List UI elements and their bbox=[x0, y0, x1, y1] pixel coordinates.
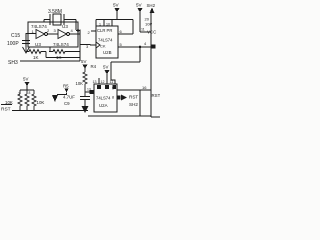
svg-text:8: 8 bbox=[29, 91, 31, 95]
svg-text:5: 5 bbox=[120, 42, 123, 47]
svg-text:4: 4 bbox=[71, 28, 74, 33]
capacitor C15 bbox=[22, 33, 30, 47]
svg-text:U3: U3 bbox=[35, 42, 41, 47]
svg-text:VCC: VCC bbox=[147, 30, 156, 35]
svg-text:10P: 10P bbox=[145, 22, 152, 27]
resistor R4 bbox=[83, 65, 87, 97]
svg-text:U3: U3 bbox=[62, 24, 68, 29]
wire between gates bbox=[48, 33, 59, 35]
svg-text:11: 11 bbox=[141, 28, 145, 32]
inverter U3a bbox=[36, 30, 45, 39]
svg-text:CK: CK bbox=[100, 44, 106, 49]
wire R5 to left bbox=[57, 93, 67, 95]
svg-text:C9: C9 bbox=[64, 101, 70, 106]
resistor R 10K c bbox=[32, 90, 36, 110]
clock chevron bbox=[96, 42, 100, 48]
svg-text:3: 3 bbox=[54, 28, 57, 33]
svg-text:SH2: SH2 bbox=[129, 102, 138, 107]
svg-text:C15: C15 bbox=[11, 33, 20, 39]
wire Q branch down bbox=[111, 47, 140, 66]
svg-text:8: 8 bbox=[112, 96, 114, 100]
svg-text:RST: RST bbox=[1, 107, 11, 113]
flip-flop U2B box bbox=[96, 26, 118, 58]
svg-text:5V: 5V bbox=[23, 77, 28, 82]
svg-text:5V: 5V bbox=[103, 65, 108, 70]
svg-text:4.7UF: 4.7UF bbox=[63, 95, 75, 100]
big IC box left edge bbox=[151, 10, 160, 117]
svg-text:4: 4 bbox=[144, 41, 147, 46]
svg-text:13: 13 bbox=[93, 80, 97, 84]
wire Q1 to CK2 bbox=[111, 66, 115, 84]
wire node A to U3 input bbox=[26, 33, 36, 35]
op-amp U3 box bbox=[28, 22, 78, 47]
svg-text:2: 2 bbox=[18, 92, 20, 96]
svg-text:SH3: SH3 bbox=[8, 60, 18, 66]
svg-text:74LS74: 74LS74 bbox=[96, 96, 111, 101]
svg-text:2: 2 bbox=[88, 30, 91, 35]
capacitor C9 bbox=[80, 97, 90, 107]
node RST SH2 arrow bbox=[121, 95, 127, 101]
svg-text:U2B: U2B bbox=[103, 50, 112, 55]
wire pullup rail bbox=[20, 89, 34, 91]
wire gate output bbox=[70, 33, 81, 35]
svg-text:100P: 100P bbox=[7, 41, 19, 47]
svg-text:2: 2 bbox=[47, 28, 50, 33]
svg-text:5V: 5V bbox=[81, 59, 86, 64]
crystal Y1 3.58M bbox=[44, 14, 76, 30]
U2A left pin mark bbox=[90, 90, 95, 94]
wire RST down branch bbox=[88, 90, 151, 116]
wire CLR pin stub bbox=[103, 20, 105, 27]
svg-text:6: 6 bbox=[120, 29, 123, 34]
svg-text:1K: 1K bbox=[33, 55, 39, 60]
svg-text:16: 16 bbox=[142, 85, 147, 90]
wire rail drop left bbox=[95, 20, 97, 27]
resistor R2 1K bbox=[49, 47, 80, 54]
flip-flop U2A box bbox=[94, 84, 117, 112]
svg-text:10K: 10K bbox=[37, 100, 45, 105]
svg-text:3.58M: 3.58M bbox=[48, 9, 62, 15]
svg-text:R5: R5 bbox=[63, 84, 69, 89]
svg-text:R4: R4 bbox=[91, 64, 97, 69]
svg-text:74LS74: 74LS74 bbox=[53, 42, 69, 47]
U2A top pin marks bbox=[97, 85, 101, 89]
wire 5V rail bbox=[96, 19, 133, 21]
resistor R1 1K bbox=[26, 33, 46, 54]
wire pin 9 to RST pin bbox=[117, 89, 151, 91]
svg-text:5V: 5V bbox=[136, 3, 143, 8]
svg-text:1K: 1K bbox=[56, 55, 62, 60]
svg-text:RST: RST bbox=[152, 93, 161, 98]
svg-text:RST: RST bbox=[129, 95, 138, 100]
svg-text:SH2: SH2 bbox=[147, 3, 156, 8]
big box pin mark bbox=[152, 45, 156, 49]
wire RST rail bbox=[12, 110, 88, 112]
wire crystal to output bbox=[76, 30, 80, 32]
resistor R 10K b bbox=[25, 90, 29, 110]
wire osc to clock bbox=[80, 44, 90, 47]
svg-text:11: 11 bbox=[110, 80, 114, 84]
wire R4 node to U2A bbox=[85, 91, 94, 93]
inverter U3b bbox=[58, 30, 67, 39]
wire rail to pin 6 bbox=[118, 20, 133, 35]
wire pin 10 stub bbox=[98, 78, 100, 84]
pin 2 stub bbox=[91, 30, 96, 32]
svg-text:U2A: U2A bbox=[99, 103, 108, 108]
svg-text:74LS74: 74LS74 bbox=[98, 38, 113, 43]
wire SH3 bbox=[20, 60, 80, 62]
resistor R 10K a bbox=[18, 90, 22, 110]
svg-text:CLR PR: CLR PR bbox=[97, 28, 112, 33]
pin 3 stub bbox=[90, 44, 96, 46]
svg-text:5V: 5V bbox=[113, 3, 120, 8]
wire osc output vertical bbox=[79, 30, 81, 62]
U2A right pin mark bbox=[117, 96, 121, 100]
node junction dot bbox=[139, 46, 142, 49]
ground (filled arrow left) bbox=[52, 95, 58, 102]
wire feedback loop bbox=[46, 52, 80, 58]
svg-text:10K: 10K bbox=[76, 81, 84, 86]
ground (open arrow under C15) bbox=[23, 47, 30, 53]
wire Q pin 5 to right bbox=[118, 46, 151, 48]
svg-text:9: 9 bbox=[112, 87, 114, 91]
svg-text:12: 12 bbox=[101, 80, 105, 84]
wire PR pin stub bbox=[111, 20, 113, 27]
node osc output junction bbox=[77, 29, 80, 32]
ground (filled arrow under C9) bbox=[82, 106, 89, 113]
